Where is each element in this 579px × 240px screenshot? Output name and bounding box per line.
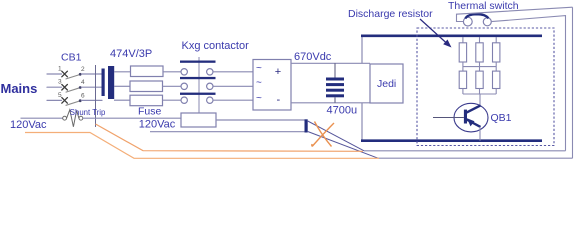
wire coil box to bar xyxy=(216,119,305,121)
wire xyxy=(21,117,63,119)
phase 3 wire bars-to-fuse xyxy=(114,99,130,101)
orange wire from 120Vac xyxy=(25,133,379,159)
wire outer loop right side xyxy=(572,7,574,158)
shunt trip switch and coil xyxy=(21,110,182,127)
rectifier bridge xyxy=(253,60,291,111)
trip coil zigzag xyxy=(67,110,79,127)
collector stroke xyxy=(467,105,481,112)
base wire xyxy=(433,117,464,119)
svg-text:Kxg contactor: Kxg contactor xyxy=(182,40,250,52)
hinge dot xyxy=(79,86,82,89)
base bar xyxy=(464,110,467,124)
wire -DC rail xyxy=(291,102,370,104)
contactor pole 2 xyxy=(181,83,213,89)
svg-text:QB1: QB1 xyxy=(491,112,512,124)
wire +DC rail xyxy=(291,62,370,64)
svg-text:Thermal switch: Thermal switch xyxy=(448,0,519,12)
wire contactor to rectifier ph1 xyxy=(213,71,253,73)
breaker CB1 pole 2 xyxy=(47,79,102,92)
contactor pole 1 xyxy=(181,69,213,75)
shunt trip linkage line xyxy=(95,65,97,127)
cable diagonal upper xyxy=(308,121,364,151)
orange X annotation xyxy=(312,122,334,147)
contact X xyxy=(62,84,68,90)
svg-text:Mains: Mains xyxy=(1,81,38,96)
bus +DC top xyxy=(361,34,542,37)
wire to fuse xyxy=(83,117,181,119)
bus -DC bottom xyxy=(361,139,542,142)
svg-text:670Vdc: 670Vdc xyxy=(294,51,332,63)
contactor bridge bar 3 xyxy=(180,93,216,95)
svg-text:120Vac: 120Vac xyxy=(139,119,176,131)
svg-text:4700u: 4700u xyxy=(327,105,358,117)
wire fuse1 to contactor xyxy=(163,71,181,73)
svg-text:5: 5 xyxy=(58,92,62,99)
svg-text:Discharge resistor: Discharge resistor xyxy=(348,8,433,20)
wire resistor bus to collector xyxy=(479,94,481,106)
contactor bridge bar 1 xyxy=(180,61,216,63)
resistor R4 xyxy=(459,71,466,88)
hinge dot xyxy=(79,99,82,102)
blade xyxy=(66,75,80,79)
contact X xyxy=(62,71,68,77)
transformer bar 1 xyxy=(102,69,105,97)
wire contactor to rectifier ph2 xyxy=(213,85,253,87)
svg-text:4: 4 xyxy=(81,79,85,86)
fuse F2 xyxy=(130,81,163,92)
main unit left edge lower xyxy=(361,103,363,141)
wire xyxy=(47,73,62,75)
svg-text:~: ~ xyxy=(256,93,262,104)
emitter arrow xyxy=(467,118,475,126)
bottom wire inner xyxy=(364,150,566,152)
contact X xyxy=(62,98,68,104)
svg-text:474V/3P: 474V/3P xyxy=(110,48,152,60)
svg-text:-: - xyxy=(277,94,281,106)
wire thermal right to inner loop xyxy=(491,16,565,151)
thermal switch TS1 xyxy=(463,14,491,26)
dashed enclosure xyxy=(417,28,554,146)
fuse F1 xyxy=(131,66,164,77)
emitter stroke xyxy=(467,120,481,127)
wire fuse2 to contactor xyxy=(163,85,181,87)
wire contactor to rectifier ph3 xyxy=(213,99,253,101)
svg-text:1: 1 xyxy=(58,66,62,73)
orange wire from shunt trip xyxy=(96,124,364,151)
contactor Kxg actuator line xyxy=(198,57,200,113)
Jedi box xyxy=(370,64,403,103)
phase 1 wire bars-to-fuse xyxy=(114,71,131,73)
resistor R5 xyxy=(476,71,483,88)
phase 2 wire bars-to-fuse xyxy=(114,85,130,87)
resistor R6 xyxy=(493,71,500,88)
contactor pole 3 xyxy=(181,97,213,103)
wire xyxy=(82,99,103,101)
lower 120V wire xyxy=(150,131,305,133)
bottom wire outer xyxy=(378,157,573,159)
cable diagonal lower xyxy=(308,132,378,159)
transistor QB1 xyxy=(433,103,488,140)
resistor R1 xyxy=(459,43,466,62)
main unit left edge upper xyxy=(361,36,363,64)
transformer bar 2 xyxy=(108,66,114,99)
resistor bottom stubs and bus xyxy=(463,89,496,95)
wire fuse3 to contactor xyxy=(163,99,181,101)
cable bundle bar xyxy=(305,119,308,132)
svg-text:120Vac: 120Vac xyxy=(10,119,47,131)
breaker CB1 pole 1 xyxy=(47,66,102,79)
svg-text:2: 2 xyxy=(81,66,85,73)
svg-text:~: ~ xyxy=(256,78,262,89)
svg-text:6: 6 xyxy=(81,92,85,99)
wire xyxy=(47,99,62,101)
capacitor C1 4700u xyxy=(326,63,344,103)
blade xyxy=(66,88,80,92)
svg-text:Fuse: Fuse xyxy=(138,105,162,117)
svg-text:3: 3 xyxy=(58,79,62,86)
svg-text:CB1: CB1 xyxy=(61,52,82,64)
wire xyxy=(82,73,103,75)
resistor R3 xyxy=(493,43,500,62)
contact circle xyxy=(79,116,83,120)
contact circle xyxy=(63,116,67,120)
hinge dot xyxy=(79,73,82,76)
discharge resistor bank: top stubs xyxy=(463,37,496,43)
wire xyxy=(47,86,62,88)
wire thermal left to outer loop xyxy=(457,7,573,21)
annotation arrow xyxy=(420,19,447,44)
svg-text:Jedi: Jedi xyxy=(377,78,396,90)
resistor mid stubs and bus xyxy=(463,62,496,71)
blade xyxy=(66,101,80,105)
svg-text:~: ~ xyxy=(256,63,262,74)
emitter wire down xyxy=(479,127,481,141)
svg-text:Shunt Trip: Shunt Trip xyxy=(70,108,106,117)
wire xyxy=(82,86,103,88)
svg-text:+: + xyxy=(275,66,281,78)
resistor R2 xyxy=(476,43,483,62)
breaker CB1 pole 3 xyxy=(47,92,102,105)
fuse F3 xyxy=(130,95,163,106)
contactor bridge bar 2 xyxy=(180,77,216,79)
fuse 120Vac box (contactor coil) xyxy=(181,113,216,127)
